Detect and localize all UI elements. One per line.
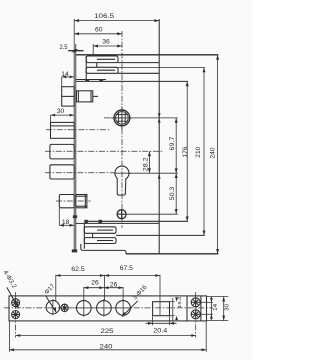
svg-text:4-Φ3.2: 4-Φ3.2 xyxy=(1,269,17,290)
svg-text:Φ17: Φ17 xyxy=(43,282,56,296)
svg-text:67.5: 67.5 xyxy=(120,265,133,272)
svg-text:240: 240 xyxy=(100,344,114,351)
svg-text:2.5: 2.5 xyxy=(60,44,68,51)
svg-text:28.2: 28.2 xyxy=(143,156,150,171)
svg-text:62.5: 62.5 xyxy=(71,266,85,273)
svg-text:26: 26 xyxy=(110,281,118,288)
svg-text:26: 26 xyxy=(91,280,99,287)
svg-text:36: 36 xyxy=(102,39,110,46)
svg-text:30: 30 xyxy=(57,108,65,115)
svg-text:3-Φ16: 3-Φ16 xyxy=(131,284,148,302)
svg-text:20.4: 20.4 xyxy=(153,327,167,334)
svg-text:19.4: 19.4 xyxy=(177,296,183,307)
svg-text:69.7: 69.7 xyxy=(169,136,176,151)
svg-text:30: 30 xyxy=(225,304,231,311)
svg-text:176: 176 xyxy=(182,146,189,158)
svg-text:225: 225 xyxy=(101,328,115,335)
svg-text:18: 18 xyxy=(62,219,70,226)
svg-text:50.3: 50.3 xyxy=(169,186,176,200)
svg-text:14: 14 xyxy=(61,71,69,78)
svg-text:14: 14 xyxy=(213,304,219,311)
svg-text:240: 240 xyxy=(210,147,217,159)
svg-text:210: 210 xyxy=(195,146,202,158)
svg-text:60: 60 xyxy=(95,27,103,34)
svg-text:106.5: 106.5 xyxy=(94,13,115,20)
